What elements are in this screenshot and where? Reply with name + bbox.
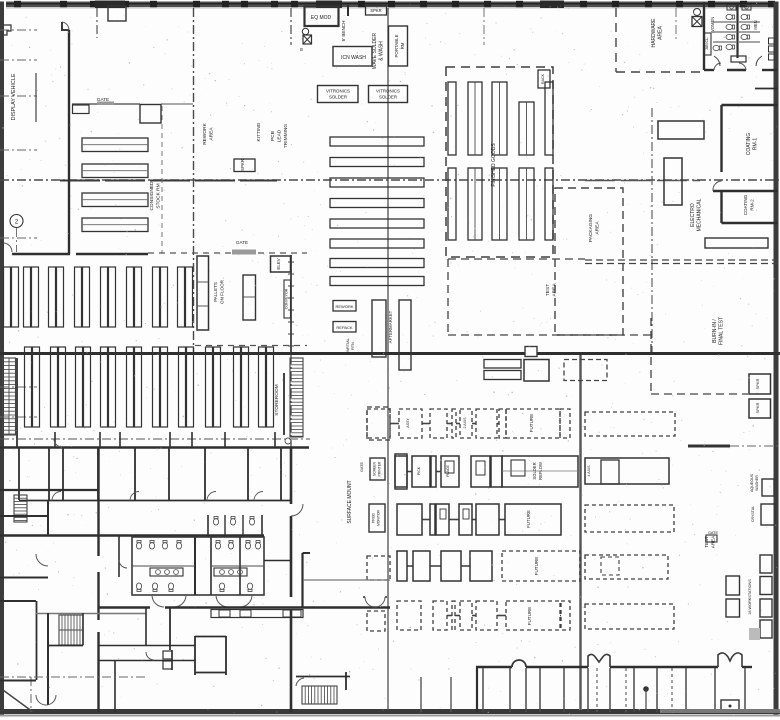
svg-text:SOLDER: SOLDER: [379, 95, 397, 100]
dock M door 2: [718, 653, 742, 667]
grid line vertical x676 stub: [675, 8, 677, 40]
svg-text:4 AXIS: 4 AXIS: [587, 465, 591, 477]
long rack bars east of storeroom: [330, 137, 424, 146]
washroom stalls row: [136, 541, 141, 550]
office mid wall y535: [0, 534, 264, 536]
vitronics solder box 2: [369, 86, 408, 103]
svg-text:AFTERMARKET: AFTERMARKET: [388, 310, 393, 343]
wall y254 segment east: [76, 253, 148, 256]
x-square fixture: [303, 35, 312, 44]
svg-text:2 AXIS: 2 AXIS: [463, 417, 467, 429]
svg-text:FUTURE: FUTURE: [527, 607, 532, 626]
jan closet: [705, 33, 712, 55]
svg-text:AREA: AREA: [209, 127, 215, 141]
janitor x-square: [692, 17, 702, 27]
svg-text:SPKR: SPKR: [755, 402, 760, 413]
svg-text:MECHANICAL: MECHANICAL: [697, 198, 703, 231]
svg-text:PACKAGING: PACKAGING: [588, 214, 594, 242]
stair S3: [59, 615, 83, 645]
svg-text:PALLETS: PALLETS: [213, 282, 218, 302]
svg-text:GATE: GATE: [97, 97, 109, 102]
washroom center wall: [736, 4, 738, 58]
dashed box right of office: [367, 407, 390, 440]
icn wash box: [333, 47, 372, 67]
washroom inner lobby walls: [714, 56, 720, 66]
smt line 3 east dashed: [585, 505, 674, 532]
washroom west wall: [703, 2, 705, 70]
door arc at left wall: [4, 243, 12, 252]
stair S3 walls: [47, 613, 49, 705]
dock jambs: [420, 677, 422, 712]
gate hatch bar nw: [97, 102, 114, 106]
svg-text:CRYSTAL: CRYSTAL: [751, 506, 755, 522]
dashed line x162: [161, 106, 163, 253]
storeroom rack row A: [4, 267, 11, 327]
washroom entry arcs: [714, 63, 721, 70]
corridor wall y607: [98, 606, 150, 608]
solid box south of wall: [524, 360, 549, 382]
stair strip far left: [3, 358, 16, 435]
incinerator label box: [284, 280, 291, 318]
janitor fixture circle: [694, 9, 701, 16]
office row1 south wall with doors: [19, 500, 291, 502]
office wall x98 long: [97, 448, 99, 556]
office extra rooms south: [98, 645, 195, 647]
spkr box north: [234, 159, 255, 172]
svg-text:REFLOW: REFLOW: [538, 462, 543, 480]
gate small rect: [73, 105, 90, 114]
svg-text:SOLDER: SOLDER: [532, 462, 537, 479]
svg-text:LEAD: LEAD: [277, 129, 283, 142]
wall y254 segment west: [12, 253, 70, 256]
dock west wall: [476, 667, 478, 712]
aftermarket rack 2: [399, 300, 411, 370]
gray wall segment bottom right: [660, 709, 780, 713]
women toilets: [726, 14, 735, 19]
coating rm2 walls: [713, 190, 778, 192]
svg-text:STOREROOM: STOREROOM: [274, 384, 280, 415]
svg-text:RM-1: RM-1: [753, 138, 759, 150]
dock M door 1: [588, 654, 610, 667]
outer wall right: [774, 2, 779, 715]
door arc above wall: [54, 439, 62, 447]
svg-text:REWORK: REWORK: [336, 304, 354, 309]
svg-text:AREA: AREA: [658, 26, 664, 40]
svg-text:DISPLAY VEHICLE: DISPLAY VEHICLE: [11, 73, 17, 120]
office room partitions row1: [18, 448, 20, 500]
svg-text:EQ MOD: EQ MOD: [311, 15, 332, 21]
spk box right 1: [749, 374, 771, 394]
office left rooms bottom wall: [0, 489, 98, 491]
office wall x291 doors: [290, 448, 293, 504]
svg-text:FINISHED GOODS: FINISHED GOODS: [491, 143, 497, 187]
washroom block outer: [132, 537, 264, 595]
office north wall y447: [0, 446, 309, 449]
office wall y601: [0, 600, 36, 602]
svg-text:ASSY: ASSY: [406, 418, 410, 428]
men toilets: [741, 14, 750, 19]
svg-text:COATING: COATING: [746, 133, 752, 156]
smt line 5 dashed: [447, 615, 452, 617]
closet box top: [108, 6, 126, 21]
rework box 2: [333, 322, 356, 333]
storeroom rack row B: [25, 347, 32, 427]
dash-dot line y439: [0, 438, 310, 440]
svg-text:AREA: AREA: [595, 221, 601, 235]
office light wall y613: [36, 613, 146, 615]
door arc stair S4: [296, 678, 304, 686]
elev box: [271, 256, 291, 272]
bollard: [643, 686, 649, 692]
prod monitor box: [369, 504, 385, 532]
pallet rack mid: [243, 275, 256, 320]
svg-text:GATE: GATE: [360, 462, 364, 473]
svg-text:CONVEYOR: CONVEYOR: [285, 288, 289, 309]
svg-text:COATING: COATING: [743, 194, 748, 215]
portable rm box: [389, 26, 408, 66]
column bubble 2: [10, 215, 23, 228]
finished goods racks group1: [448, 82, 456, 155]
svg-text:ICN WASH: ICN WASH: [341, 55, 366, 61]
finished goods dashed boundary: [446, 67, 553, 257]
urinals: [769, 38, 775, 44]
coating rm2 door arc: [713, 181, 722, 191]
svg-text:WASHER: WASHER: [755, 475, 759, 491]
office stubs above wall: [54, 432, 56, 447]
svg-text:MEN: MEN: [753, 20, 758, 29]
svg-text:FUTURE: FUTURE: [529, 414, 534, 433]
svg-text:WOMEN: WOMEN: [710, 17, 715, 34]
svg-text:RM-2: RM-2: [750, 199, 755, 211]
washroom bottom toilets: [136, 583, 141, 592]
svg-text:AQUEOUS: AQUEOUS: [750, 473, 754, 492]
svg-text:STOCK RM: STOCK RM: [156, 183, 162, 208]
dash mark right: [688, 445, 730, 448]
burn-in double dashed line: [585, 259, 778, 261]
outer wall bottom: [0, 709, 780, 714]
circle fixture: [302, 28, 308, 34]
corner room dashdot: [0, 676, 146, 678]
smt line 4 east dashed: [585, 555, 668, 579]
svg-text:CONSIGNED: CONSIGNED: [149, 181, 155, 211]
dock wall y667: [476, 666, 512, 668]
stair S2: [14, 495, 27, 522]
wall y104 east segment: [161, 103, 193, 105]
corner room diagonal: [3, 690, 33, 712]
pallet rack tall: [197, 256, 209, 330]
test bench boxes column 1: [726, 576, 740, 595]
finished goods racks group2: [448, 168, 456, 240]
svg-text:GATE: GATE: [708, 531, 719, 535]
coating rm1 walls: [720, 105, 722, 172]
office room right of washroom: [264, 560, 291, 562]
wall y104 west segment: [72, 103, 140, 105]
svg-text:MONITOR: MONITOR: [377, 509, 381, 525]
crystal touch box: [761, 504, 775, 525]
svg-text:& WASH: & WASH: [379, 41, 385, 61]
office wall x170: [169, 607, 171, 650]
dashed box south of wall: [564, 360, 607, 381]
svg-text:ELECTRO: ELECTRO: [690, 203, 696, 227]
svg-text:FUTURE: FUTURE: [534, 557, 539, 576]
svg-text:PROD: PROD: [372, 513, 376, 523]
washroom sink counters: [150, 568, 183, 576]
test bench boxes right wall: [760, 555, 772, 573]
women stall partitions: [713, 21, 736, 23]
svg-text:BURN-IN /: BURN-IN /: [712, 319, 718, 343]
bench stub wall: [347, 5, 349, 16]
svg-text:JAN CL: JAN CL: [705, 38, 709, 50]
office rooms south-mid: [195, 636, 226, 638]
svg-text:ON FLOOR: ON FLOOR: [220, 279, 225, 304]
smt line 1 dashed: [390, 423, 399, 425]
consigned stock racks: [82, 138, 148, 152]
washroom south wall: [704, 69, 714, 71]
svg-text:SPKR: SPKR: [370, 8, 381, 13]
corridor benches: [211, 610, 303, 618]
svg-text:6' BENCH: 6' BENCH: [341, 21, 346, 42]
spkr box 2: [366, 6, 387, 16]
grid stub lines off left wall: [0, 29, 37, 31]
svg-text:RTN: RTN: [351, 342, 355, 350]
vestibule double doors: [365, 597, 375, 607]
svg-text:ELEV: ELEV: [276, 258, 281, 269]
svg-text:REWORK: REWORK: [202, 122, 208, 144]
fence dashed y345: [195, 345, 307, 347]
electro mech bench tall: [664, 158, 682, 205]
grid line horizontal y180: [0, 179, 780, 181]
svg-text:PORTABLE: PORTABLE: [394, 34, 399, 57]
grid line vertical D x388: [387, 8, 389, 710]
svg-text:VITRONICS: VITRONICS: [326, 89, 350, 94]
svg-text:REPACK: REPACK: [336, 325, 352, 330]
wall above S2: [0, 515, 48, 517]
smt line 2 east machine: [585, 458, 669, 484]
door arc x291: [291, 504, 303, 516]
svg-text:HARDWARE: HARDWARE: [651, 18, 657, 48]
svg-text:B: B: [300, 47, 303, 52]
eq mod box: [305, 7, 339, 27]
svg-text:SPKR: SPKR: [240, 159, 245, 171]
aftermarket rack 1: [372, 300, 386, 357]
dock small box: [721, 700, 739, 711]
svg-text:SOLDER: SOLDER: [329, 95, 347, 100]
office wall x302: [301, 553, 303, 607]
svg-text:PARTIAL: PARTIAL: [346, 338, 350, 353]
svg-text:TEST: TEST: [545, 284, 551, 296]
grid line vertical x652 dash: [651, 108, 653, 352]
door bump on wall y353: [525, 347, 537, 357]
sink counters: [727, 5, 736, 11]
office wall x36: [36, 601, 38, 680]
ramp side wall: [283, 373, 285, 435]
racking small box: [538, 70, 550, 88]
door arcs bottom left: [36, 695, 46, 705]
svg-text:FINAL TEST: FINAL TEST: [719, 317, 725, 345]
wall stub right y88: [755, 88, 778, 90]
grid line vertical E x580 lower: [579, 354, 582, 710]
grid line vertical x484 stub: [483, 8, 485, 45]
grid line vertical B x193: [193, 8, 195, 352]
svg-text:SPKR: SPKR: [755, 378, 760, 389]
svg-text:VITRONICS: VITRONICS: [376, 89, 400, 94]
svg-text:PRINTER: PRINTER: [378, 461, 382, 476]
washroom door arcs: [152, 595, 164, 607]
door arc left rooms: [36, 554, 48, 566]
wall horizontal y353 full width: [0, 352, 780, 355]
svg-text:18 WORKSTATIONS: 18 WORKSTATIONS: [748, 579, 752, 615]
aqueous washer box: [762, 479, 774, 496]
smt line 3 solid: [422, 519, 430, 521]
svg-text:WAVE SOLDER: WAVE SOLDER: [372, 33, 378, 70]
ramp strip x290: [290, 358, 303, 437]
men stall partitions: [739, 21, 760, 23]
fence dashed y253: [148, 252, 307, 254]
vitronics solder box 1: [318, 86, 359, 103]
outer wall left: [0, 2, 4, 715]
office wall y577: [0, 577, 48, 579]
smt line 2 solid: [407, 471, 412, 473]
display vehicle line: [35, 73, 37, 122]
screen printer box: [370, 458, 385, 480]
left wall notch: [4, 25, 11, 35]
svg-text:FUTURE: FUTURE: [526, 510, 531, 528]
closet square: [140, 105, 161, 124]
washroom upper stalls: [207, 515, 209, 535]
svg-text:AREA: AREA: [552, 283, 558, 297]
svg-text:PICK: PICK: [417, 466, 421, 475]
stair S4 enclosure: [296, 676, 350, 678]
door arc room NW: [62, 22, 69, 30]
wall y680 left: [0, 680, 36, 682]
electro mech bench long: [658, 121, 704, 139]
svg-text:KITTING: KITTING: [256, 122, 262, 141]
svg-text:PCB: PCB: [270, 131, 276, 141]
bench pair south of wall: [484, 360, 521, 369]
svg-text:TRIMMING: TRIMMING: [283, 124, 289, 149]
stair rail wall x17: [16, 358, 18, 447]
spk box right 2: [749, 399, 771, 418]
office partition x119: [118, 535, 120, 577]
smt line 4: [407, 565, 413, 567]
gate hatch: [232, 250, 256, 255]
rework box 1: [333, 301, 356, 312]
test area dashed boundary: [448, 258, 585, 260]
outer wall top: [6, 2, 776, 8]
bench long right: [705, 238, 768, 248]
grid stub x97 dashdot: [96, 8, 98, 38]
svg-text:SURFACE MOUNT: SURFACE MOUNT: [347, 480, 353, 523]
smt line 5 east dashed: [585, 604, 674, 629]
svg-text:PLACE: PLACE: [446, 465, 450, 477]
washroom partitions: [194, 537, 196, 595]
grid line vertical C x291: [290, 8, 292, 45]
electrical panel boxes: [163, 651, 172, 659]
office walls right of x291 top: [303, 552, 311, 554]
packaging area dashed boundary: [555, 188, 623, 335]
hardware area dashed boundary: [615, 8, 617, 72]
wall west room x69: [68, 30, 70, 254]
